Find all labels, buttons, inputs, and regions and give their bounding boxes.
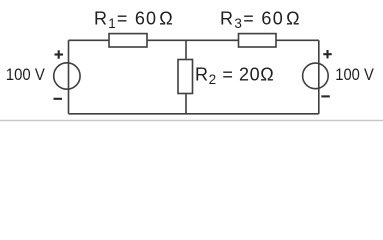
svg-text:R1= 60Ω: R1= 60Ω xyxy=(94,8,174,31)
svg-text:R3= 60Ω: R3= 60Ω xyxy=(220,8,301,31)
plus sign left source xyxy=(55,50,64,58)
svg-text:100 V: 100 V xyxy=(6,66,45,84)
minus sign right source xyxy=(321,95,329,97)
wire left vertical xyxy=(68,40,70,114)
plus sign right source xyxy=(323,50,331,58)
svg-text:R2 = 20Ω: R2 = 20Ω xyxy=(195,64,274,87)
wire bottom horizontal xyxy=(69,113,319,115)
svg-text:100 V: 100 V xyxy=(335,66,374,84)
voltage source V2 (right) xyxy=(303,63,329,89)
resistor R2 xyxy=(178,60,193,94)
wire top horizontal xyxy=(69,39,319,41)
resistor R1 xyxy=(109,34,147,47)
resistor R3 xyxy=(239,34,277,47)
voltage source V1 (left) xyxy=(54,63,80,89)
faint page rule at bottom xyxy=(0,120,383,122)
wire middle vertical xyxy=(185,40,187,114)
wire right vertical xyxy=(318,40,320,114)
minus sign left source xyxy=(54,98,63,100)
